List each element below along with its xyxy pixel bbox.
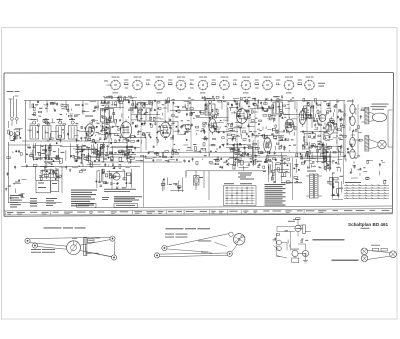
main HT rail wire: [24, 100, 345, 102]
tube socket view V10 (EF86): [304, 77, 315, 91]
tube V4 envelope: [209, 116, 217, 135]
FM dial note text: [165, 234, 188, 238]
label Lautsprecherumschaltung: [313, 239, 345, 240]
tube V8b envelope: [319, 115, 326, 122]
tube V8 envelope: [326, 119, 334, 136]
tube socket view V2 (ECH81): [132, 77, 143, 91]
antenna down-lead wire: [9, 101, 26, 203]
demod mid texture: [200, 122, 296, 144]
FM tuner unit box: [36, 166, 63, 193]
rectifier cluster: [327, 173, 343, 200]
legend text left bottom: [10, 195, 57, 208]
FM dial idler pulley: [229, 232, 233, 236]
loudspeaker LS2: [369, 140, 386, 150]
speaker switch tube Q1: [277, 218, 305, 237]
AM dial cord: [30, 237, 115, 257]
speaker network wires: [367, 245, 390, 260]
bottom rail wire: [95, 206, 392, 208]
tube V3 envelope: [160, 120, 171, 140]
switch legend text block: [265, 184, 286, 206]
AM dial pulley P3: [110, 236, 115, 241]
loudspeaker LS1: [369, 104, 389, 122]
tube socket view V1 (ECC85): [110, 77, 121, 94]
speaker switch contact rows: [344, 182, 389, 199]
IF strip mid texture: [100, 121, 199, 144]
dial lamp dashed strip: [100, 153, 136, 155]
chassis rail wire: [21, 161, 140, 174]
FM dial pulley P6: [154, 253, 159, 258]
speaker LS3: [361, 248, 368, 255]
coil symbol between sockets: [168, 80, 172, 85]
speaker switch detail texture: [274, 225, 310, 256]
AF rail wire: [186, 170, 266, 172]
label TA-Anschluss: [332, 260, 359, 261]
AM dial drum: [67, 241, 81, 255]
tube V5 envelope: [236, 106, 247, 126]
AM dial pulley P4: [111, 255, 116, 260]
output tubes pair upper: [347, 99, 355, 126]
tube socket view V9 (ECC83): [284, 77, 295, 94]
IF strip labels upper: [101, 96, 199, 123]
mains wiring texture: [350, 160, 387, 184]
notes text small mid: [238, 173, 254, 180]
right section wiring: [340, 104, 392, 162]
speaker LS4: [361, 255, 368, 262]
IF can T6: [273, 96, 283, 114]
FM dial pulley P7: [227, 251, 232, 256]
coil symbol between sockets: [146, 80, 150, 85]
left bottom rail wire: [8, 202, 62, 204]
coil symbol between sockets: [255, 80, 259, 89]
AM dial pulley P1: [25, 238, 30, 243]
switch legend header: [281, 182, 302, 183]
tube V8a envelope: [299, 108, 306, 127]
tube socket view V7 (EL84): [241, 77, 252, 94]
bus wire band 3: [90, 161, 182, 163]
coil symbol between sockets: [212, 80, 216, 85]
FM dial pulley P5: [162, 245, 167, 250]
antenna A1: [9, 96, 19, 126]
FM dial labels: [198, 241, 211, 255]
volume control cluster: [91, 142, 135, 161]
RF mid extra texture: [27, 122, 99, 142]
tube V6 envelope: [264, 135, 272, 155]
IF can T7: [304, 100, 314, 118]
AM dial note text: [31, 238, 99, 254]
FM dial cord: [160, 234, 238, 257]
speaker switch pot: [273, 238, 288, 256]
tone control stage: [96, 166, 132, 190]
IF strip lower texture: [101, 143, 201, 165]
AM dial drive title: [44, 227, 86, 228]
tube V7 envelope: [285, 117, 294, 135]
ground bus left wire: [5, 121, 30, 199]
output transformer T1: [361, 107, 369, 124]
driver labels upper: [300, 98, 343, 124]
RF band filter L2: [30, 119, 39, 139]
coil symbol between sockets: [276, 80, 280, 85]
antenna coupling coil L1: [8, 129, 23, 142]
drawing title Schaltplan BD 461: [348, 222, 389, 227]
band switch cluster: [96, 121, 111, 140]
RF section wiring: [22, 141, 100, 163]
RF band filter L3: [43, 119, 52, 139]
voltage note text: [104, 189, 136, 192]
socket row left leader wire: [104, 81, 111, 86]
output transformer T2: [365, 136, 369, 151]
bus wire band 2: [90, 156, 340, 158]
FM dial drive title: [166, 228, 211, 229]
speaker switch tube Q2: [291, 249, 299, 263]
label box Tonbandanschluss: [114, 204, 138, 208]
small triode V9 envelope: [104, 119, 191, 129]
coil symbol between sockets: [190, 80, 194, 89]
tube socket view V4 (EM84): [176, 77, 187, 91]
output tubes pair lower: [350, 131, 355, 159]
speaker switch tube Q3: [302, 250, 308, 263]
AM dial pulley P2: [32, 243, 37, 248]
RF section labels: [28, 101, 99, 123]
long vertical feed wires: [144, 120, 344, 207]
mid bottom wires: [161, 171, 209, 200]
socket row pin-number brace: [104, 96, 137, 98]
service notes block A: [71, 190, 97, 208]
tube socket view V5 (EABC80): [198, 77, 209, 94]
stage feed vertical wires: [109, 101, 337, 157]
ferrite antenna label: [7, 90, 20, 93]
title block band: [4, 209, 392, 216]
RF band filter L5: [69, 119, 78, 139]
tube socket view V6 (EL84): [219, 77, 230, 91]
demod labels upper: [199, 95, 297, 124]
coil symbol between sockets: [298, 80, 302, 85]
mixer tube V1a envelope: [85, 116, 94, 139]
demod lower texture: [199, 143, 298, 171]
oscillator cluster: [70, 142, 104, 166]
coil symbol between sockets: [233, 80, 237, 85]
power transformer TR1: [306, 171, 322, 199]
pushbutton switch matrix S1: [224, 183, 257, 205]
coupling capacitor C40: [186, 171, 204, 190]
IF can T5: [205, 98, 215, 115]
AF amplifier cluster: [229, 140, 263, 169]
speaker switch wiring: [276, 232, 305, 259]
IF can T4: [138, 102, 151, 121]
AM dial shaft: [84, 237, 87, 255]
subtitle: [361, 227, 370, 230]
svg-text:Schaltplan BD 461: Schaltplan BD 461: [348, 222, 389, 227]
tube socket view V8 (EZ80): [262, 77, 273, 91]
output stage cluster: [263, 153, 299, 184]
IF can T3: [101, 103, 114, 122]
service text block B: [102, 196, 142, 202]
schematic sheet border: [4, 73, 394, 217]
AM dial scale box: [88, 238, 100, 243]
bus wire band 1: [127, 151, 344, 153]
socket row right label: [318, 83, 325, 87]
rail drop wires: [30, 101, 344, 121]
interstage link wires: [60, 108, 330, 163]
phase splitter cluster: [300, 141, 342, 172]
coil symbol between sockets: [124, 80, 128, 89]
FM dial drum: [234, 234, 245, 245]
RF band filter L4: [56, 119, 65, 139]
tube socket view V3 (EF89): [154, 77, 165, 94]
driver mid texture: [302, 122, 343, 144]
driver lower texture: [300, 143, 345, 172]
speaker LS5: [390, 251, 397, 258]
tube V2 envelope: [120, 119, 131, 141]
